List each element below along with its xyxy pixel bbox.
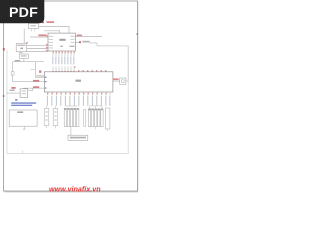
U1 bottom pin stubs with red pin numbers <box>48 92 111 95</box>
net name SCL gray <box>82 41 89 43</box>
wire from group1 to J_MXM box <box>70 127 72 135</box>
page sheet <box>4 1 138 191</box>
label D_CLK0 (red, right of badge) <box>47 21 55 23</box>
diode D1 on gate net <box>11 72 14 76</box>
wire stubs below group 2 and connector bar <box>96 127 108 131</box>
wire: cmd block B to DDR left pins <box>27 46 48 52</box>
GATE gray label <box>15 60 20 62</box>
pin-1 caps group 1 <box>65 109 79 110</box>
red label above crystal wire <box>113 78 119 80</box>
KBC transistor block Q1 <box>20 89 28 98</box>
single connector bar <box>105 108 110 129</box>
PDF badge <box>0 0 44 23</box>
frame notch bottom-left <box>22 151 24 154</box>
U2 inner pin name column right <box>70 36 74 43</box>
red specks above IC top edge <box>53 66 107 72</box>
svg-text:www.vinafix.vn: www.vinafix.vn <box>49 185 101 194</box>
crystal Y1 at IC right <box>120 78 126 84</box>
KBC_EN gray label <box>10 90 15 91</box>
resistor array group 1 (5 bars) <box>64 108 79 126</box>
U2 center small text <box>60 46 63 47</box>
U1 bottom rotated net labels <box>47 96 110 106</box>
wire from Q1 collector up <box>28 88 33 91</box>
wire: DDR right upper stub <box>75 36 102 38</box>
resistor pack RN boxes (two narrow) <box>44 109 49 126</box>
red tick at sheet left edge <box>3 48 5 51</box>
wire: block A right to DDR top (upper jog) <box>39 27 70 34</box>
wire: DDR top pin <box>44 31 60 33</box>
DDR bottom pin stubs and rotated net labels <box>52 51 75 72</box>
schematic frame border <box>7 46 128 153</box>
main IC U1 <box>44 72 113 92</box>
U2 title text <box>59 39 65 41</box>
800 small block <box>20 54 29 58</box>
wire: D_CA red-labelled net into DDR left <box>30 36 48 38</box>
wire: net into IC left pin 2 <box>13 81 45 83</box>
pin-1 caps group 2 <box>89 109 103 110</box>
U1 left pin labels (red+gray) <box>33 80 39 82</box>
red speck near badge corner <box>42 22 44 23</box>
wire into Q1 base <box>7 92 21 94</box>
block A (top small IC) <box>29 23 39 28</box>
red net label left <box>11 87 15 89</box>
red pin numbers at U2 left pins <box>46 35 48 51</box>
U1 left pin names (blue) <box>45 77 47 89</box>
red speck on upper right stub <box>77 35 83 37</box>
DDR memory IC U2 <box>48 33 75 51</box>
cmd list block B <box>16 43 27 51</box>
red pin number on U2 right <box>79 41 81 43</box>
wire: net into IC left pin 3 <box>23 87 45 89</box>
gray pin label above IC pin 1 <box>36 75 44 76</box>
resistor array group 2 (5 bars) <box>88 109 103 127</box>
edge tick marks <box>3 95 5 97</box>
red net label on IC top-left wire <box>39 70 41 72</box>
U2 inner text LVDD <box>69 46 74 47</box>
J1 bottom stub <box>23 126 26 129</box>
U2 inner pin name column left <box>49 36 53 49</box>
rail over group 1 <box>65 105 77 107</box>
wire: block A down to cmd block B <box>23 29 25 44</box>
wire: IC right pin to crystal <box>113 80 120 82</box>
rotated net label text columns <box>51 57 54 65</box>
label D_CA red above wire <box>38 34 46 36</box>
wire: vertical into IC top-left <box>36 62 45 78</box>
wire: vertical drop from 800 block via diode <box>12 62 14 82</box>
wire: DDR right D_VREF long net to right edge <box>75 43 128 82</box>
svg-text:PDF: PDF <box>9 5 38 21</box>
wire branch left at tee <box>31 69 36 71</box>
page shadow <box>5 191 139 193</box>
stubs into IC top <box>53 67 74 72</box>
blue hyperlink text lines <box>15 99 17 100</box>
rail over group 2 <box>90 106 103 109</box>
wire stubs of RN boxes <box>47 106 56 129</box>
wire: GATE net <box>13 61 44 63</box>
J_MXM label box <box>68 135 88 140</box>
U1 interior label <box>76 80 82 82</box>
battery/charger block J1 <box>9 110 37 126</box>
narrow bar left of group 2 <box>84 110 86 127</box>
